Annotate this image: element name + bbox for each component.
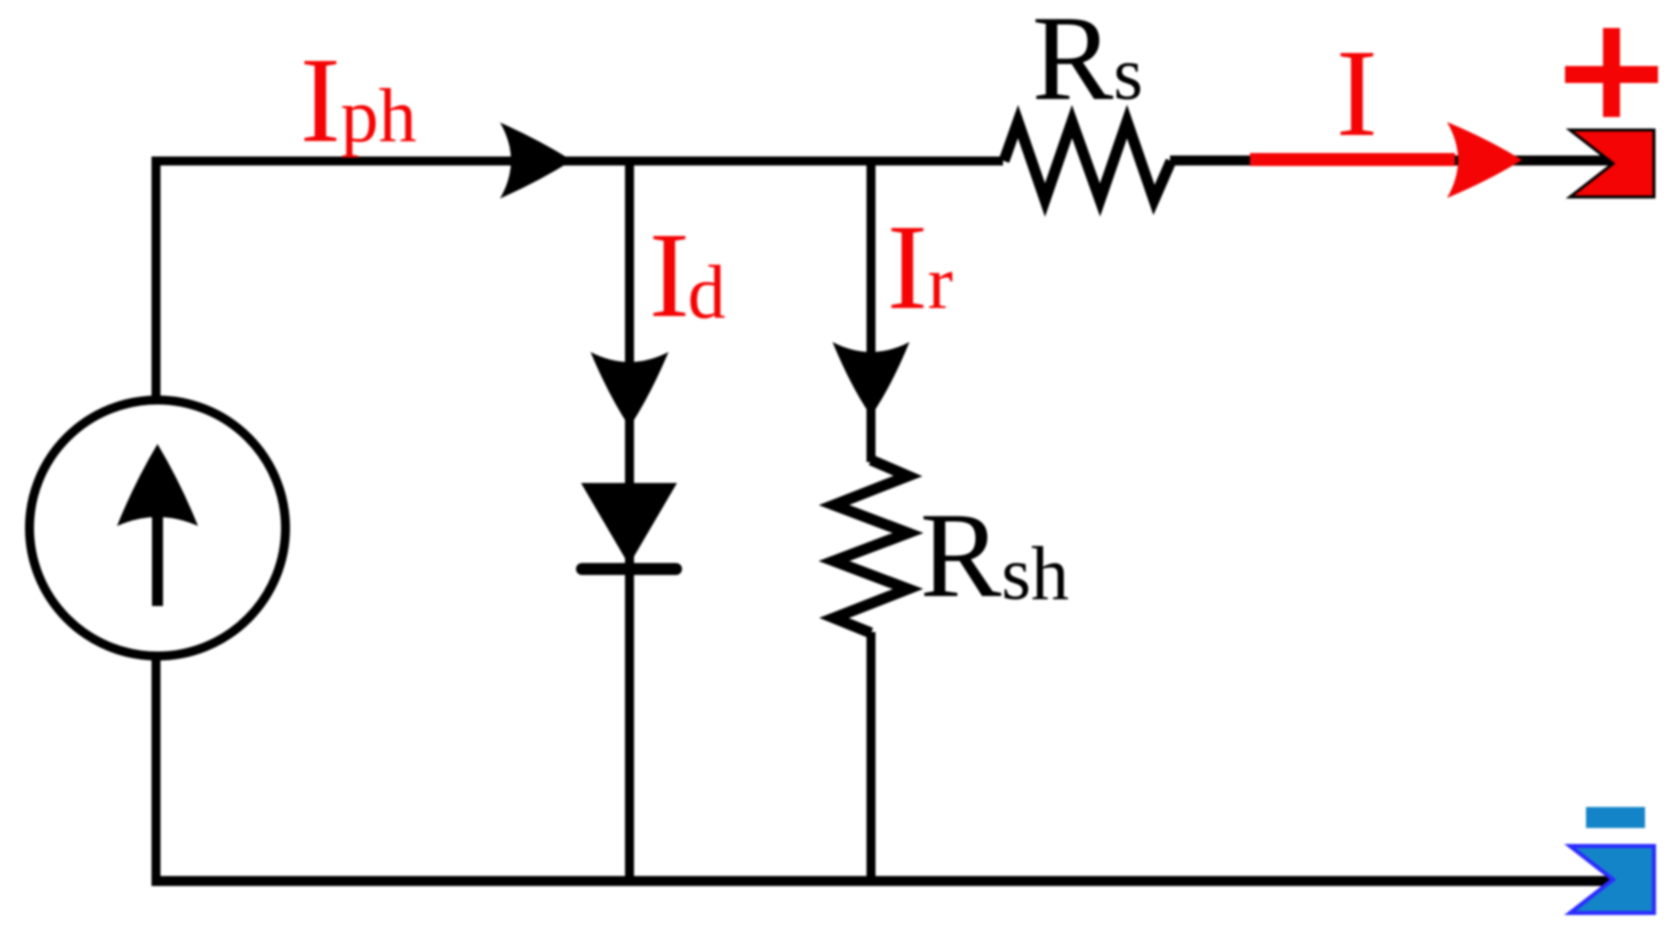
svg-text:I: I bbox=[1336, 25, 1378, 163]
diode D1 triangle bbox=[581, 483, 677, 565]
plus sign bbox=[1565, 28, 1658, 117]
wire top horizontal (node A to Rs) bbox=[152, 157, 1004, 166]
wire top-right (Rs to + terminal) bbox=[1170, 156, 1613, 166]
terminal positive (red) bbox=[1570, 130, 1654, 197]
wire diode branch vertical bbox=[625, 157, 634, 882]
minus sign bbox=[1586, 807, 1645, 828]
diode D1 cathode bar bbox=[582, 563, 676, 575]
current source arrowhead bbox=[117, 444, 198, 526]
wire left vertical (bottom) bbox=[152, 655, 161, 885]
wire Rsh branch vertical (top) bbox=[867, 157, 876, 463]
wire bottom horizontal bbox=[152, 876, 1614, 886]
arrowhead Iph on top wire bbox=[500, 123, 572, 199]
resistor Rs zigzag bbox=[1004, 122, 1171, 201]
arrowhead Ir on Rsh branch bbox=[833, 342, 910, 416]
red current line I bbox=[1250, 153, 1455, 166]
current source circle bbox=[30, 400, 286, 656]
wire Rsh branch vertical (bottom) bbox=[867, 632, 876, 881]
wire left vertical (top) bbox=[152, 157, 161, 403]
current source arrow shaft bbox=[152, 502, 163, 606]
red arrowhead I bbox=[1447, 122, 1522, 198]
arrowhead Id on diode branch bbox=[591, 352, 669, 427]
resistor Rsh zigzag bbox=[834, 460, 908, 633]
terminal negative (blue) bbox=[1570, 846, 1654, 913]
